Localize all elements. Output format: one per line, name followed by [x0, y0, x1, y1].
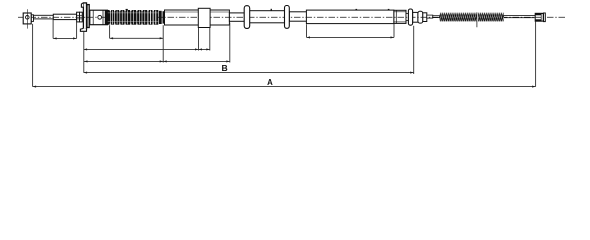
svg-text:B: B — [222, 63, 228, 73]
svg-text:A: A — [267, 78, 273, 87]
